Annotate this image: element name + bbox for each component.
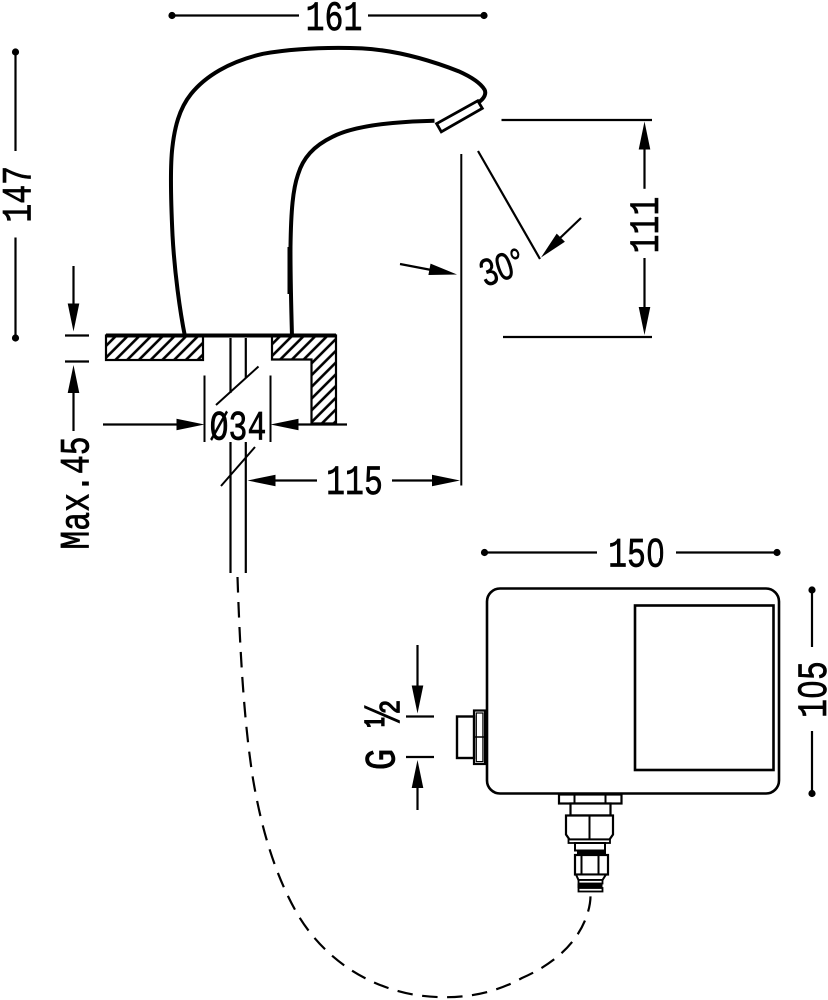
control box inlet flange	[474, 711, 485, 765]
control box inlet nut	[457, 717, 474, 759]
supply pipe left	[229, 338, 231, 393]
control box window	[635, 606, 774, 771]
dimension 111 extension line top	[502, 119, 653, 121]
dimension O34 arrows	[103, 423, 177, 425]
counter slab top line	[106, 334, 336, 338]
dimension 147 end dots	[12, 48, 19, 55]
control box body	[487, 589, 779, 794]
dimension G 1/2 text	[356, 701, 416, 771]
dimension 161 text	[306, 0, 363, 44]
dimension G 1/2 arrows	[416, 645, 418, 686]
dimension 161 end dots	[168, 12, 175, 19]
outlet fitting hex nut	[566, 816, 613, 840]
counter slab left hatched part	[106, 336, 203, 361]
leader arrow to angled line	[559, 218, 581, 239]
svg-text:115: 115	[326, 460, 383, 507]
svg-text:G ½: G ½	[356, 701, 416, 771]
svg-text:111: 111	[624, 197, 671, 254]
dimension 147 line	[14, 52, 16, 338]
outlet fitting dark band lower	[578, 884, 603, 889]
outlet fitting ribbed body	[575, 855, 608, 875]
dimension 111 extension line bottom	[503, 336, 652, 338]
svg-text:Max.45: Max.45	[55, 436, 102, 549]
dimension 105 text	[792, 661, 828, 718]
faucet sensor mark	[288, 247, 290, 294]
svg-text:161: 161	[306, 0, 363, 44]
hose dashed curve	[238, 577, 591, 997]
dimension 105 line	[811, 590, 813, 794]
supply pipe right	[245, 338, 247, 378]
30 degree angled line	[478, 151, 540, 259]
30 degree text	[474, 241, 530, 296]
faucet outer profile	[171, 48, 485, 337]
outlet fitting collar	[569, 840, 611, 844]
counter slab right hatched part	[272, 336, 336, 424]
faucet inner profile	[290, 121, 434, 337]
svg-text:Ø34: Ø34	[210, 406, 267, 453]
pipe break line lower	[221, 447, 255, 486]
dimension 111 text	[624, 197, 671, 254]
dimension 115 text	[326, 460, 383, 507]
dimension O34 extension lines	[204, 376, 206, 443]
dimension 150 text	[608, 533, 665, 580]
outlet fitting flange	[559, 795, 622, 804]
dimension 150 line	[485, 551, 778, 553]
leader arrow to reference line	[400, 264, 434, 271]
Max.45 annotation arrows	[72, 266, 74, 304]
outlet fitting neck	[571, 804, 611, 816]
dimension 150 end dots	[481, 549, 488, 556]
dimension O34 text	[210, 406, 267, 453]
dimension 105 end dots	[808, 586, 815, 593]
pipe break line upper	[216, 367, 259, 406]
dimension 111 arrows	[639, 122, 651, 150]
dimension 161 line	[172, 14, 484, 16]
outlet fitting dark band upper	[577, 851, 606, 856]
outlet fitting tip	[579, 888, 603, 892]
Max.45 text	[55, 436, 102, 549]
dimension 147 text	[0, 166, 44, 223]
outlet fitting taper	[576, 875, 606, 881]
faucet aerator tip	[437, 101, 483, 132]
dimension 115 line	[248, 475, 276, 487]
spout reference vertical line	[460, 154, 462, 486]
svg-text:147: 147	[0, 166, 44, 223]
